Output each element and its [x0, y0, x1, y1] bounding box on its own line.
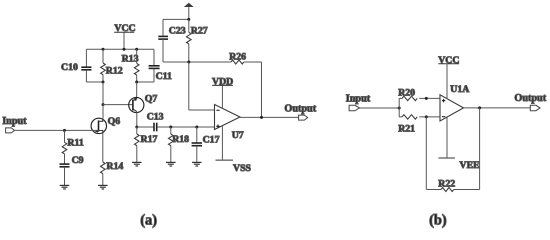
wire feedback bottom right	[454, 189, 480, 191]
node arrow/R27	[187, 18, 190, 21]
op-amp U1A	[440, 84, 469, 121]
wire VCC stem	[123, 32, 125, 49]
wire VEE pin	[446, 117, 448, 158]
VEE power symbol	[438, 158, 480, 171]
svg-text:Input: Input	[2, 116, 27, 127]
VCC power symbol (b)	[438, 55, 459, 66]
resistor R27	[187, 19, 208, 62]
svg-text:R12: R12	[106, 65, 123, 76]
capacitor C10	[61, 49, 92, 82]
svg-text:Output: Output	[514, 93, 546, 104]
wire input to Q6 base	[14, 129, 98, 131]
wire Q6 emitter down to R14	[102, 134, 104, 163]
resistor R26	[229, 52, 246, 64]
wire to Q7 collector	[136, 82, 138, 98]
wire feedback bottom left	[426, 189, 441, 191]
wire C10 bottom to R12 node	[86, 81, 103, 83]
ground under C9	[60, 185, 70, 189]
node input/R11	[63, 129, 66, 132]
wire Q7 emitter down	[136, 112, 138, 127]
wire input to split node	[360, 107, 400, 109]
capacitor C9	[60, 155, 84, 185]
node rail-VCC	[123, 48, 126, 51]
wire feedback down to output	[261, 62, 263, 117]
wire feedback left drop	[425, 117, 427, 190]
svg-text:R20: R20	[398, 88, 415, 99]
resistor R21	[398, 115, 440, 135]
svg-text:C17: C17	[203, 134, 220, 145]
wire node to Q6 top	[102, 105, 104, 119]
wire C13 to op-amp + input	[157, 126, 214, 128]
node C23/R27 bottom	[187, 61, 190, 64]
wire minus input drop	[188, 62, 190, 110]
node rail-R13	[135, 48, 138, 51]
capacitor C23	[158, 19, 185, 62]
node input split	[398, 107, 401, 110]
wire down to Q6 collector node	[102, 82, 104, 105]
node rail-R12	[102, 48, 105, 51]
svg-text:U7: U7	[232, 130, 244, 141]
svg-text:Q7: Q7	[145, 94, 158, 105]
op-amp U7	[215, 105, 244, 142]
node Q7 emitter / C13 / R17	[135, 126, 138, 129]
Input port (a)	[2, 116, 27, 133]
wire to Q7 base	[103, 104, 133, 106]
capacitor C13	[147, 112, 164, 132]
wire R26 to feedback corner	[244, 61, 262, 63]
capacitor C17	[192, 127, 220, 162]
VSS power symbol	[216, 160, 252, 174]
ground under R14	[98, 185, 108, 189]
svg-text:R27: R27	[191, 26, 208, 37]
node R18	[169, 126, 172, 129]
svg-text:Output: Output	[284, 104, 316, 115]
svg-text:C23: C23	[169, 26, 186, 37]
wire feedback right rise	[479, 108, 481, 190]
Output port (a)	[284, 104, 316, 120]
resistor R17	[135, 127, 158, 162]
ground under R17	[132, 162, 142, 166]
resistor R20	[398, 88, 440, 101]
svg-text:U1A: U1A	[450, 84, 469, 95]
node C17	[195, 126, 198, 129]
node output/feedback	[260, 116, 263, 119]
Output port (b)	[514, 93, 546, 111]
wire top rail	[86, 48, 154, 50]
svg-text:C10: C10	[61, 62, 78, 73]
wire op-amp output (b)	[464, 107, 531, 109]
svg-text:R26: R26	[229, 52, 246, 63]
svg-text:VEE: VEE	[460, 160, 481, 171]
svg-text:(a): (a)	[140, 213, 157, 229]
VCC arrow power symbol	[184, 3, 194, 20]
resistor R13	[122, 49, 139, 82]
wire VSS pin	[221, 126, 223, 160]
svg-text:R14: R14	[106, 161, 123, 172]
wire top bar C23/R27	[163, 18, 189, 20]
node R20/plus	[425, 97, 428, 100]
wire VDD pin	[221, 85, 223, 108]
ground under R18	[166, 162, 176, 166]
svg-text:R18: R18	[172, 134, 189, 145]
svg-text:(b): (b)	[429, 213, 447, 229]
svg-text:C11: C11	[156, 71, 172, 82]
node R21/feedback	[425, 115, 428, 118]
node R12/C10	[102, 81, 105, 84]
svg-text:Q6: Q6	[108, 116, 121, 127]
resistor R18	[169, 127, 190, 162]
resistor R22	[438, 178, 455, 191]
svg-text:R21: R21	[398, 124, 415, 135]
capacitor C11	[149, 49, 172, 82]
svg-text:VSS: VSS	[233, 163, 252, 174]
wire feedback top run	[163, 61, 231, 63]
wire VCC pin (b)	[446, 64, 448, 99]
VCC power symbol	[114, 23, 135, 34]
svg-text:Input: Input	[346, 93, 371, 104]
transistor Q6	[91, 116, 120, 133]
svg-text:C13: C13	[147, 112, 164, 123]
wire op-amp output	[240, 116, 299, 118]
VDD power symbol	[212, 76, 233, 87]
node output/feedback (b)	[478, 106, 481, 109]
svg-text:R13: R13	[122, 53, 139, 64]
wire to op-amp minus input	[189, 109, 215, 111]
wire C11 bottom to R13 bottom	[137, 81, 154, 83]
wire to C13	[137, 126, 154, 128]
transistor Q7	[129, 94, 158, 113]
resistor R12	[101, 49, 123, 82]
node R13/C11/Q7 collector	[135, 81, 138, 84]
resistor R11	[62, 130, 84, 164]
svg-text:R22: R22	[438, 178, 455, 189]
Input port (b)	[346, 93, 371, 111]
svg-text:R11: R11	[67, 138, 83, 149]
ground under C17	[192, 162, 202, 166]
svg-text:R17: R17	[141, 134, 158, 145]
svg-text:C9: C9	[72, 155, 84, 166]
resistor R14	[101, 161, 124, 185]
node Q6 collector / Q7 base	[102, 103, 105, 106]
wire split vertical	[398, 98, 400, 117]
